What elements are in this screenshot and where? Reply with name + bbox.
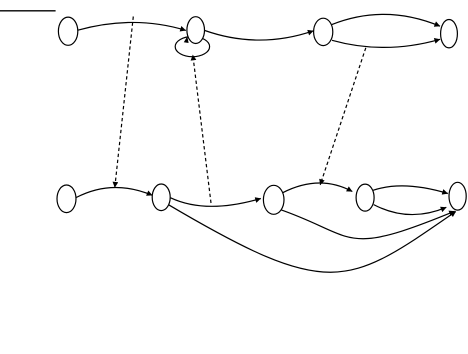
wire: dashed edge E-down bbox=[320, 48, 366, 185]
wire: edge B4 to B5 lower bbox=[374, 205, 447, 215]
node B3 bbox=[263, 185, 284, 214]
wire: dashed edge A-down bbox=[115, 17, 134, 188]
wire: edge T1 to T2 bbox=[78, 22, 186, 30]
wire: dashed edge up to self-loop bbox=[193, 55, 211, 203]
node T2 bbox=[187, 17, 205, 44]
wire: edge B2 to B3 bbox=[171, 198, 261, 207]
node B1 bbox=[57, 185, 76, 213]
self-loop arrowhead into T2 bbox=[184, 36, 189, 43]
rule line (top-left page fragment) bbox=[0, 10, 56, 12]
wire: edge B4 to B5 upper bbox=[373, 186, 448, 194]
wire: edge B3 to B5 bottom curve bbox=[280, 209, 455, 238]
wire: edge B1 to B2 bbox=[76, 187, 152, 197]
wire: edge B3 to B4 bbox=[283, 183, 353, 193]
node B5 bbox=[449, 182, 466, 210]
wire: edge T3 to T4 lower bbox=[332, 39, 440, 47]
wire: edge T3 to T4 upper bbox=[332, 14, 440, 26]
wire: edge B2 to B5 long bottom curve bbox=[168, 204, 456, 272]
node T3 bbox=[314, 18, 333, 45]
node T1 bbox=[58, 17, 77, 45]
node B2 bbox=[152, 184, 170, 211]
wire: self-loop on T2 bbox=[175, 37, 209, 57]
node B4 bbox=[356, 184, 374, 211]
wire: edge T2 to T3 bbox=[205, 31, 314, 41]
node T4 bbox=[441, 20, 458, 48]
